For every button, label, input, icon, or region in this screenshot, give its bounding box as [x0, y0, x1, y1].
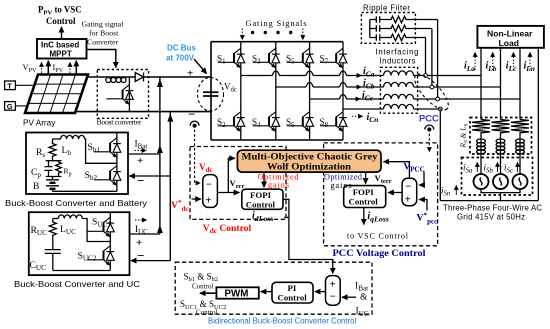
svg-text:+: + — [137, 155, 143, 167]
gating dots — [251, 31, 292, 34]
FOPI Control box left — [242, 189, 283, 209]
DC bottom rail — [76, 111, 211, 113]
capacitor Cuc — [45, 238, 61, 271]
UC converter box — [29, 212, 130, 275]
source a — [474, 174, 489, 189]
iCc dotted arrow — [351, 98, 360, 100]
boost converter dashed box — [97, 70, 148, 119]
iLa arrow — [474, 53, 476, 71]
resistor Rs — [49, 139, 56, 159]
Verr wire to FOPI right — [388, 192, 402, 194]
hop a over leg2 — [271, 71, 280, 75]
UC plus wire — [130, 233, 160, 235]
ripple branch 1 — [370, 16, 438, 23]
svg-text:gains: gains — [268, 181, 289, 190]
resistor Rp — [56, 161, 62, 177]
IGBT S7 — [320, 48, 347, 68]
UC halfbridge leg — [109, 212, 111, 270]
PCC sensor — [425, 125, 434, 132]
IBat dotted arrow — [135, 150, 147, 152]
inductor phase n — [384, 104, 414, 109]
svg-text:T: T — [7, 81, 12, 90]
FOPI Control box right — [344, 186, 386, 208]
idLoss dots — [284, 217, 288, 219]
PCC sense dashed wire — [428, 134, 430, 152]
svg-text:+: + — [405, 194, 411, 206]
svg-text:Gating signal: Gating signal — [82, 20, 125, 29]
svg-text:Three-Phase Four-Wire AC: Three-Phase Four-Wire AC — [443, 204, 542, 213]
VPV dashed arrow — [41, 63, 43, 74]
hop a over leg3 — [305, 71, 314, 75]
Verr wire to FOPI — [217, 192, 239, 194]
iSa arrow — [476, 163, 478, 173]
grid wire b — [500, 153, 502, 175]
svg-text:Control: Control — [349, 197, 379, 207]
VSC bridge left edge — [210, 42, 212, 140]
svg-text:+: + — [187, 68, 193, 80]
gating dotted arrow right — [302, 29, 304, 40]
svg-text:−: − — [137, 173, 144, 188]
hop a over leg4 — [338, 71, 347, 75]
VSC bottom rail — [211, 139, 343, 141]
svg-text:Buck-Boost Converter and UC: Buck-Boost Converter and UC — [14, 280, 140, 289]
wire PI to PWM — [261, 291, 272, 293]
svg-text:for Boost: for Boost — [89, 29, 119, 38]
arrowhead B top — [167, 114, 173, 122]
wire MPPT to boost gate — [87, 50, 116, 68]
Verr branch to optimizer — [228, 158, 235, 192]
node c — [436, 97, 440, 101]
wire PWM out — [200, 292, 216, 294]
IGBT Sb1 — [94, 138, 121, 158]
grid bottom bus — [481, 189, 520, 201]
PCC dashed ellipse — [410, 69, 454, 114]
svg-text:G: G — [7, 102, 13, 111]
IGBT Suc1 — [87, 217, 114, 237]
optimizer box — [237, 150, 381, 173]
VPCC ref wire — [419, 200, 427, 211]
boost diode — [135, 73, 143, 82]
idLoss wire to bidir junction — [283, 199, 333, 273]
svg-text:Inductors: Inductors — [380, 57, 416, 66]
svg-text:&: & — [360, 291, 368, 302]
battery mid wire — [85, 139, 117, 163]
source c — [513, 174, 528, 189]
node b — [430, 85, 434, 89]
svg-text:FOPI: FOPI — [353, 187, 375, 197]
grid sources dashed box — [462, 158, 533, 196]
svg-text:−: − — [206, 180, 212, 191]
VPV sense arrow into MPPT — [47, 61, 49, 75]
ripple branch 3 — [370, 34, 426, 41]
iqLoss arrow down — [363, 208, 365, 225]
hop c over leg4 — [338, 95, 347, 99]
PV array panel — [25, 75, 88, 114]
VSC leg 3 — [309, 42, 311, 140]
inductor phase c — [384, 94, 414, 99]
boost inductor — [106, 78, 126, 83]
IPV dashed arrow — [69, 63, 71, 74]
Vdc control dashed box — [190, 147, 286, 220]
svg-text:Control: Control — [278, 293, 308, 303]
battery converter box — [26, 133, 128, 195]
T box — [5, 81, 16, 90]
svg-text:to VSC Control: to VSC Control — [347, 232, 409, 241]
iLc arrow — [512, 53, 514, 71]
IGBT Sb2 — [94, 166, 121, 186]
phase line n — [343, 108, 440, 110]
svg-text:B: B — [33, 181, 39, 192]
ripple branch 2 — [370, 25, 432, 32]
node a — [424, 74, 428, 78]
riser a — [425, 38, 427, 74]
iLb arrow — [492, 53, 494, 71]
IGBT S6 — [287, 112, 314, 132]
boost IGBT leg — [128, 77, 130, 112]
UC minus wire — [131, 260, 170, 262]
capacitor Cp — [45, 161, 53, 177]
optimizer gains arrow right — [365, 172, 367, 184]
svg-text:−: − — [188, 107, 195, 122]
hop b over leg3 — [305, 83, 314, 87]
ripple filter dashed box — [361, 13, 415, 44]
parallel node bars — [46, 159, 62, 179]
load wire a — [480, 48, 482, 120]
iSc arrow — [517, 163, 519, 173]
phase line b — [276, 86, 501, 88]
DC bus vertical A — [159, 77, 161, 234]
load wire c — [519, 48, 521, 120]
svg-text:Bidirectional Buck-Boost Conve: Bidirectional Buck-Boost Converter Contr… — [208, 317, 356, 326]
IGBT S3 — [253, 48, 280, 68]
svg-text:Boost converter: Boost converter — [97, 118, 142, 127]
svg-text:PCC: PCC — [419, 113, 439, 124]
iSn arrow — [455, 186, 457, 196]
svg-text:MPPT: MPPT — [50, 50, 72, 59]
MPPT box — [37, 39, 87, 59]
neutral drop wire — [439, 111, 441, 201]
DC link capacitor — [203, 92, 219, 96]
svg-text:PWM: PWM — [225, 289, 249, 300]
svg-text:PCC Voltage Control: PCC Voltage Control — [333, 248, 426, 259]
svg-text:Wolf Optimization: Wolf Optimization — [267, 162, 352, 173]
IGBT S4 — [253, 112, 280, 132]
svg-text:Control: Control — [246, 199, 276, 209]
iCa dotted arrow — [352, 75, 361, 77]
svg-text:DC Bus: DC Bus — [167, 44, 196, 53]
svg-text:Control: Control — [196, 308, 217, 316]
grid resistor b — [492, 120, 510, 135]
riser b — [431, 29, 433, 86]
resistor Ruc — [49, 219, 56, 239]
phase line a — [241, 75, 481, 77]
battery top wire — [53, 138, 61, 140]
gating dotted arrow left — [241, 29, 243, 40]
Vdc sense dashed wire — [195, 130, 200, 184]
arrowhead A top — [157, 79, 163, 87]
grid wire a — [480, 153, 482, 175]
Vdc ref arrow — [192, 198, 201, 200]
IGBT S5 — [287, 48, 314, 68]
IGBT S8 — [320, 112, 347, 132]
IPV sense arrow into MPPT — [75, 61, 77, 75]
IGBT Suc2 — [87, 246, 114, 266]
battery minus wire — [130, 175, 171, 177]
PWM box — [216, 287, 258, 299]
inductor Luc — [58, 215, 82, 219]
UC mid wire — [82, 219, 110, 242]
Vdc sensor — [190, 121, 199, 128]
UC bottom wire — [53, 270, 111, 272]
source b — [493, 174, 508, 189]
G box — [5, 102, 16, 111]
Verr branch to optimizer right — [384, 162, 410, 179]
iSb arrow — [497, 163, 499, 173]
svg-text:−: − — [137, 248, 144, 263]
VPCC wire into junction — [419, 172, 424, 186]
wire T to panel — [15, 84, 34, 86]
iLn arrow — [529, 53, 531, 71]
boost IGBT — [106, 85, 133, 105]
svg-text:Buck-Boost Converter and Batte: Buck-Boost Converter and Battery — [5, 199, 148, 208]
iCb dotted arrow — [352, 86, 361, 88]
VSC top rail — [211, 41, 343, 43]
inductor Lb — [61, 135, 85, 139]
battery halfbridge leg — [116, 133, 118, 192]
IGBT S2 — [218, 112, 245, 132]
svg-text:Non-Linear: Non-Linear — [487, 28, 533, 38]
svg-text:gains: gains — [331, 181, 352, 190]
battery bottom wire — [53, 190, 117, 192]
grid resistor a — [472, 120, 490, 135]
capacitor dashed ellipse — [198, 77, 224, 111]
svg-text:−: − — [405, 182, 411, 193]
svg-text:Control: Control — [46, 16, 76, 26]
DC bus pointer arrow — [194, 59, 207, 74]
svg-text:+: + — [205, 195, 211, 207]
summing junction Vdc — [203, 175, 218, 208]
svg-text:+: + — [330, 279, 336, 291]
grid inductor b — [496, 135, 505, 154]
svg-text:Grid 415V at 50Hz: Grid 415V at 50Hz — [457, 213, 525, 222]
DC bus vertical B — [169, 112, 171, 261]
grid wire c — [519, 153, 521, 175]
interfacing inductors dashed box — [380, 67, 417, 113]
grid inductor a — [477, 135, 486, 154]
grid inductor c — [516, 135, 525, 154]
PI Control box — [272, 282, 313, 303]
hop b over leg4 — [338, 83, 347, 87]
svg-text:−: − — [330, 292, 336, 303]
VSC leg 2 — [275, 42, 277, 140]
svg-text:Control: Control — [192, 282, 213, 290]
Non-Linear Load box — [477, 26, 544, 48]
arrowhead A battery — [157, 145, 163, 153]
node n — [438, 107, 442, 111]
arrow MPPT to PPV control — [61, 27, 63, 39]
svg-text:at 700V: at 700V — [166, 54, 195, 63]
svg-text:Ripple Filter: Ripple Filter — [363, 4, 410, 13]
summing junction PCC — [402, 178, 417, 205]
iCn dotted arrow — [352, 115, 363, 117]
svg-text:Load: Load — [499, 38, 520, 48]
ripple left bus — [369, 20, 371, 38]
wire junction to PI — [315, 291, 326, 293]
summing junction bidir — [326, 276, 341, 306]
PCC control dashed box — [324, 143, 438, 246]
VSC leg 1 — [240, 42, 242, 140]
RsLs dashed box — [470, 118, 532, 155]
riser c — [437, 20, 439, 98]
grid bottom line — [440, 200, 538, 202]
optimizer gains arrow left — [263, 172, 265, 187]
DC top rail — [87, 76, 211, 78]
svg-text:Gating Signals: Gating Signals — [246, 19, 307, 28]
inductor phase b — [384, 82, 414, 87]
IUC dotted arrow — [135, 219, 147, 221]
wire currents into junction — [342, 296, 356, 298]
inductor phase a — [384, 71, 414, 76]
arrowhead A uc — [157, 225, 163, 233]
VSC leg 4 — [342, 42, 344, 140]
bidirectional control dashed box — [175, 262, 372, 314]
battery plus wire — [128, 153, 160, 155]
load wire b — [500, 48, 502, 120]
IGBT S1 — [218, 48, 245, 68]
svg-text:InC based: InC based — [41, 41, 79, 50]
load wire n — [537, 48, 539, 201]
battery B symbol — [46, 179, 59, 192]
svg-text:Interfacing: Interfacing — [376, 48, 419, 57]
svg-text:PV Array: PV Array — [23, 119, 56, 128]
svg-text:Converter: Converter — [87, 38, 119, 47]
wire G to panel — [15, 105, 27, 107]
UC top wire — [53, 218, 59, 220]
phase line c — [310, 98, 520, 100]
grid resistor c — [511, 120, 529, 135]
